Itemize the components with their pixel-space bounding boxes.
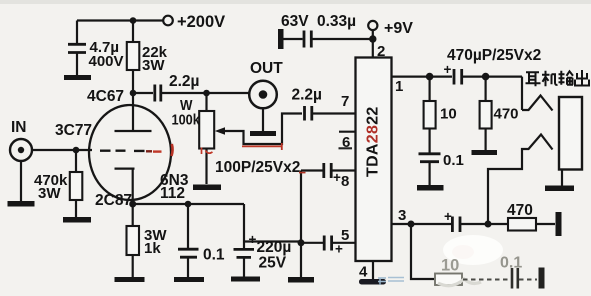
blue artifact near pin4 ground	[378, 278, 386, 285]
svg-text:2.2µ: 2.2µ	[292, 87, 322, 104]
terminal bar zobel end	[539, 268, 545, 289]
pin 1 wire	[392, 75, 453, 77]
wire cathode rail	[133, 204, 301, 249]
svg-text:+: +	[444, 62, 452, 77]
svg-text:+: +	[335, 242, 343, 257]
svg-text:4C67: 4C67	[87, 88, 124, 105]
node pot top junction	[203, 90, 210, 97]
plate of V1	[115, 93, 152, 131]
ground under pot	[193, 185, 221, 191]
resistor R4 10	[429, 77, 431, 101]
label 出	[575, 70, 589, 86]
op-amp U1 TDA2822	[356, 58, 392, 262]
svg-text:100P/25Vx2: 100P/25Vx2	[215, 159, 300, 176]
svg-text:63V: 63V	[281, 13, 309, 30]
svg-text:IN: IN	[11, 119, 27, 136]
svg-text:3W: 3W	[142, 57, 165, 74]
node grid input junction	[73, 147, 80, 154]
wire C2 to OUT	[162, 92, 249, 94]
wire pin 2	[372, 30, 374, 58]
ground under C11	[417, 185, 444, 191]
svg-text:220µ: 220µ	[257, 239, 292, 256]
svg-text:400V: 400V	[89, 53, 124, 70]
wiper arrow of pot to C3	[222, 114, 302, 145]
svg-text:470µP/25Vx2: 470µP/25Vx2	[447, 47, 541, 64]
label 机	[542, 71, 558, 87]
jack body J1	[559, 97, 582, 170]
wire pin3 down	[411, 224, 434, 279]
terminal +200V	[163, 16, 173, 26]
bus wire left of IC	[300, 171, 302, 278]
label headphone output	[526, 70, 590, 86]
pin 3 wire	[392, 223, 453, 225]
terminal bar 0.33u left	[278, 29, 284, 49]
resistor R2 470k 3W	[75, 150, 77, 172]
svg-text:3W: 3W	[38, 185, 61, 202]
svg-text:0.1: 0.1	[443, 152, 464, 169]
dashed wire zobel	[463, 279, 509, 281]
pin 8 capacitor C8	[301, 169, 323, 171]
dashed wire zobel 2	[519, 279, 537, 281]
svg-text:+: +	[333, 170, 341, 185]
ground under C5	[231, 277, 260, 282]
jack tip contact upper	[522, 77, 553, 111]
node 0.1 junction	[185, 201, 192, 208]
red artifact pot bottom	[202, 148, 213, 155]
svg-text:2.2µ: 2.2µ	[169, 73, 199, 90]
svg-text:0.1: 0.1	[500, 255, 522, 272]
ground under bus	[288, 277, 314, 283]
white smudge artifact	[443, 235, 503, 265]
capacitor C1 4.7u 400V	[76, 21, 78, 44]
ground lead under IN	[20, 161, 22, 201]
capacitor C5 220u 25V electrolytic	[234, 249, 255, 257]
svg-text:470: 470	[494, 106, 519, 123]
svg-text:OUT: OUT	[250, 60, 283, 77]
svg-text:3C77: 3C77	[55, 122, 92, 139]
svg-text:25V: 25V	[259, 255, 287, 272]
node top rail junction	[130, 17, 137, 24]
terminal +9V	[368, 21, 377, 30]
grid of V1 (dashed)	[100, 149, 145, 152]
pin 4 ground	[372, 261, 374, 280]
svg-text:100k: 100k	[172, 110, 201, 127]
ground under OUT	[250, 131, 276, 136]
svg-text:4: 4	[359, 264, 368, 281]
node cathode junction	[129, 201, 136, 208]
wire top rail to +200V	[77, 19, 163, 21]
pin 5 capacitor C9	[301, 242, 323, 244]
label 耳	[526, 72, 541, 86]
svg-text:1k: 1k	[144, 240, 161, 257]
potentiometer W 100k	[205, 93, 207, 111]
svg-text:TDA2822: TDA2822	[365, 106, 382, 177]
svg-text:+9V: +9V	[384, 20, 413, 37]
svg-text:10: 10	[441, 257, 459, 275]
svg-text:470: 470	[507, 202, 533, 219]
svg-text:10: 10	[440, 106, 457, 123]
wire IN to grid	[32, 149, 92, 151]
node A plate node	[130, 90, 137, 97]
terminal bar right	[556, 212, 562, 236]
cathode of V1	[115, 169, 135, 204]
node +9V junction	[369, 35, 376, 42]
ground under R2	[63, 217, 91, 223]
ground under R3	[115, 277, 145, 282]
triode V1 6N3 envelope	[89, 105, 171, 200]
svg-text:+200V: +200V	[177, 13, 225, 31]
capacitor C4 0.1	[187, 204, 189, 248]
svg-text:112: 112	[160, 185, 185, 202]
label 输	[559, 71, 574, 85]
svg-text:0.33µ: 0.33µ	[317, 13, 356, 30]
svg-text:+: +	[444, 209, 452, 224]
svg-text:8: 8	[341, 173, 349, 190]
red artifact grid dashes	[146, 150, 152, 152]
ground under C1	[64, 75, 91, 80]
svg-text:3: 3	[398, 207, 406, 224]
capacitor C2 2.2u coupling	[136, 92, 153, 94]
resistor R7 10 faded	[435, 274, 462, 286]
resistor R3 1k 3W	[132, 204, 134, 226]
pin 6 stub	[339, 131, 356, 133]
resistor R5 470	[485, 77, 487, 101]
jack ring contact lower	[488, 135, 553, 223]
jack ground lead	[561, 170, 563, 187]
red artifact under wiper wire	[242, 145, 281, 147]
svg-text:1: 1	[395, 78, 403, 95]
svg-text:0.1: 0.1	[203, 247, 225, 264]
svg-text:7: 7	[341, 93, 349, 110]
capacitor C11 0.1	[419, 154, 441, 162]
ground under R5	[472, 150, 498, 155]
svg-text:+: +	[249, 232, 257, 247]
blue artifact bottom left	[388, 278, 404, 282]
resistor R1 22k 3W	[132, 21, 134, 43]
svg-text:2C87: 2C87	[95, 192, 132, 209]
ground under C4	[174, 277, 204, 282]
capacitor C13 0.1 faded	[512, 268, 518, 289]
